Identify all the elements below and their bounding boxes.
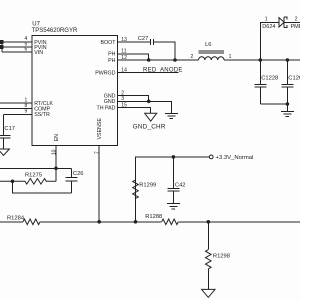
svg-text:C42: C42 xyxy=(175,182,186,188)
wire output rail up to diode D624 xyxy=(260,22,279,60)
svg-text:1: 1 xyxy=(229,54,232,60)
wire R1299 body leads xyxy=(135,157,137,222)
IC U7 left pin numbers 4 5 6 1 8 9 xyxy=(25,36,28,115)
svg-text:GND_CHR: GND_CHR xyxy=(133,124,166,131)
wire SS/TR pin 9 xyxy=(4,114,33,135)
IC U7 bottom pin numbers 10 and 7 (rotated) xyxy=(52,149,101,155)
wire feedback line right segment xyxy=(178,221,300,223)
junction C27 branch on PH line xyxy=(173,58,177,62)
wire GND pin 2 xyxy=(118,96,149,102)
wire C27 to PH node xyxy=(153,42,175,60)
wire R1299 top to 3.3V rail xyxy=(136,157,174,222)
wire PH pin 11 xyxy=(118,54,149,60)
IC U7 right pin numbers 13 11 12 14 2 3 15 xyxy=(121,37,127,108)
wire EN pin 10 stub xyxy=(55,146,57,169)
resistor R1298 xyxy=(206,250,212,269)
capacitor C27 xyxy=(150,39,153,45)
junction R1299 bottom xyxy=(134,220,138,224)
wire joining capacitor bottoms xyxy=(260,103,287,105)
svg-text:BOOT: BOOT xyxy=(100,40,116,46)
IC U7 right pin names xyxy=(95,40,116,111)
svg-text:R1299: R1299 xyxy=(139,182,156,188)
svg-text:TPS54620RGYR: TPS54620RGYR xyxy=(32,28,78,34)
svg-text:R1284: R1284 xyxy=(7,215,25,221)
ground triangle below C17 xyxy=(0,149,9,155)
svg-text:R1298: R1298 xyxy=(213,254,230,260)
wire RT/CLK pin 1 xyxy=(0,102,32,104)
IC U7 left pin names xyxy=(34,40,53,118)
svg-text:D624: D624 xyxy=(262,24,275,30)
ground triangle below R1298 xyxy=(202,289,215,297)
junction R1298 top xyxy=(207,220,211,224)
ground earth symbol output caps xyxy=(281,104,294,117)
ground triangle GND_CHR xyxy=(145,113,157,121)
svg-text:PH: PH xyxy=(108,52,116,58)
wire PWRGD pin 14 net RED_ANODE xyxy=(118,72,179,74)
wire R1275 left down and across to C26 bottom xyxy=(13,181,72,193)
svg-text:VIN: VIN xyxy=(34,50,43,56)
wire PVIN pin 4 xyxy=(0,41,32,43)
svg-text:+3.3V_Normal: +3.3V_Normal xyxy=(216,155,254,161)
IC U7 bottom pin names EN and VSENSE (rotated) xyxy=(54,118,103,142)
junction output node at C1266 xyxy=(286,58,290,62)
wire feedback line middle segment xyxy=(40,221,162,223)
capacitor C1266 xyxy=(281,60,293,104)
wire R1298 top lead xyxy=(207,222,209,250)
resistor R1275 xyxy=(0,179,56,185)
wire PVIN pin 5 xyxy=(0,46,32,48)
wire feedback line left segment xyxy=(0,221,23,223)
junction input pin4 xyxy=(0,40,3,44)
capacitor C42 xyxy=(167,157,179,204)
svg-text:10: 10 xyxy=(52,149,58,155)
wire EN down to R1275 xyxy=(55,168,57,181)
junction EN net xyxy=(54,167,58,171)
svg-text:2: 2 xyxy=(295,17,298,23)
diode D624 xyxy=(279,17,287,28)
wire diode cathode to right edge xyxy=(284,21,300,23)
svg-text:EN: EN xyxy=(54,134,60,142)
junction output node at C1228 xyxy=(259,58,263,62)
wire VSENSE pin 7 stub down to feedback line xyxy=(98,146,100,222)
junction R1275 left node xyxy=(11,180,15,184)
svg-text:R1275: R1275 xyxy=(25,172,42,178)
svg-text:L6: L6 xyxy=(205,42,211,48)
terminal circle +3.3V_Normal xyxy=(209,155,213,159)
svg-text:2: 2 xyxy=(191,54,194,60)
IC U7 reference designator xyxy=(32,22,78,34)
wire VIN pin 6 xyxy=(2,51,32,53)
svg-text:RED_ANODE: RED_ANODE xyxy=(143,67,183,73)
svg-text:C17: C17 xyxy=(4,126,15,132)
svg-text:R1288: R1288 xyxy=(145,214,162,220)
junction input pin5 xyxy=(0,45,3,49)
wire TH PAD pin 15 xyxy=(118,108,151,114)
ground earth symbol below C42 xyxy=(167,204,180,209)
resistor R1284 xyxy=(23,219,40,225)
resistor R1288 xyxy=(162,219,179,225)
svg-text:SS/TR: SS/TR xyxy=(34,112,50,118)
svg-text:TH PAD: TH PAD xyxy=(96,105,115,111)
svg-text:9: 9 xyxy=(25,109,28,115)
wire COMP pin 8 xyxy=(0,108,32,110)
svg-text:PH: PH xyxy=(108,58,116,64)
svg-text:PMEG: PMEG xyxy=(291,24,301,30)
wire L6 to output rail xyxy=(224,59,300,61)
wire 3.3V rail to terminal xyxy=(173,156,209,158)
wire R1298 bottom lead xyxy=(207,269,209,290)
junction PH pins xyxy=(147,58,151,62)
svg-text:C1266: C1266 xyxy=(288,76,300,82)
svg-text:PWRGD: PWRGD xyxy=(95,71,115,77)
junction VSENSE on feedback line xyxy=(97,220,101,224)
wire GND pin 3 xyxy=(118,101,172,113)
svg-text:C26: C26 xyxy=(73,171,84,177)
svg-text:C1228: C1228 xyxy=(261,76,278,82)
svg-text:1: 1 xyxy=(265,17,268,23)
wire input bus vertical tie xyxy=(1,42,3,52)
wire EN net horizontal xyxy=(0,167,72,169)
svg-text:GND: GND xyxy=(104,99,116,105)
resistor R1299 xyxy=(133,180,139,199)
capacitor C26 xyxy=(66,168,78,193)
junction GND pins xyxy=(147,100,151,104)
capacitor C1228 xyxy=(254,60,266,104)
wire BOOT pin 13 xyxy=(118,41,151,43)
ground earth symbol GND pins xyxy=(165,113,178,118)
inductor L6 xyxy=(199,51,225,60)
svg-text:C27: C27 xyxy=(138,36,149,42)
svg-text:VSENSE: VSENSE xyxy=(97,118,103,140)
wire PH pin 12 to inductor xyxy=(118,59,199,61)
junction capacitor bottoms xyxy=(286,102,290,106)
IC U7 body xyxy=(32,36,118,146)
svg-text:U7: U7 xyxy=(32,22,40,28)
junction C42 on 3.3V rail xyxy=(172,155,176,159)
capacitor C17 xyxy=(0,135,10,149)
